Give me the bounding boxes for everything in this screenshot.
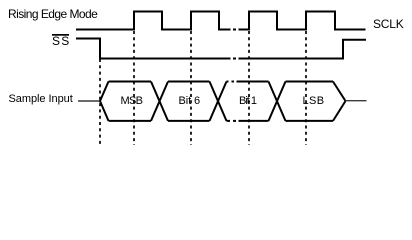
- crossover between Bit 6 and Bit 1: [210, 82, 227, 121]
- svg-text:Bit 1: Bit 1: [239, 95, 257, 107]
- data bus opening transition: [100, 82, 109, 121]
- crossover between Bit 1 and LSB: [269, 82, 286, 121]
- svg-text:SS: SS: [52, 34, 70, 48]
- svg-text:LSB: LSB: [303, 95, 325, 107]
- Bit 6 cell top edge: [168, 81, 210, 83]
- SS waveform: [76, 39, 366, 59]
- sample input lead-out wire: [346, 100, 367, 102]
- SCLK clock waveform: [76, 12, 366, 30]
- svg-text:Bit 6: Bit 6: [179, 95, 201, 107]
- dotted sampling line at SCLK rising edge 2 (x=191): [190, 31, 192, 145]
- svg-text:SCLK: SCLK: [373, 17, 404, 31]
- sample input lead-in wire: [78, 100, 101, 102]
- LSB cell bottom edge: [286, 120, 334, 122]
- Bit 1 cell top edge with break: [227, 81, 269, 83]
- Bit 1 cell bottom edge with break: [227, 120, 269, 122]
- MSB cell bottom edge: [109, 120, 152, 122]
- dotted sampling line at SCLK rising edge 3 (x=249): [248, 31, 250, 145]
- dotted sampling line at SCLK rising edge 4 (x=306): [305, 31, 307, 145]
- MSB cell top edge: [109, 81, 152, 83]
- SCLK break dot (time discontinuity): [233, 29, 236, 31]
- data bus closing transition: [333, 82, 346, 121]
- SS break dot (time discontinuity): [233, 58, 236, 60]
- LSB cell top edge: [286, 81, 334, 83]
- svg-text:Rising Edge Mode: Rising Edge Mode: [8, 7, 98, 21]
- svg-text:MSB: MSB: [121, 95, 143, 107]
- svg-text:Sample Input: Sample Input: [9, 93, 73, 105]
- Bit 6 cell bottom edge: [168, 120, 210, 122]
- crossover between MSB and Bit 6: [151, 82, 168, 121]
- dotted sampling line at SCLK rising edge 1 (x=134): [133, 31, 135, 145]
- overbar of SS label: [52, 34, 69, 36]
- dotted sampling line at SS falling edge (x=100): [99, 59, 101, 145]
